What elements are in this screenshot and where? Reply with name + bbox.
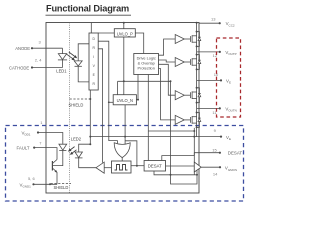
svg-text:14: 14: [213, 171, 218, 176]
red dashed box (gate drive outputs): [217, 38, 241, 117]
svg-text:VOUTP: VOUTP: [225, 50, 236, 56]
wire UVLO_N left down to gate: [109, 101, 113, 103]
svg-text:Drive Logic: Drive Logic: [137, 57, 156, 61]
pin 9 VE: [220, 136, 222, 138]
svg-text:FAULT: FAULT: [17, 146, 30, 151]
svg-text:3: 3: [39, 39, 42, 44]
wire Drive Logic bottom stub (to UVLO_N right): [137, 75, 139, 100]
wire CATHODE pin: [31, 66, 33, 68]
svg-text:VGND1: VGND1: [20, 182, 32, 188]
photodiode D2: [59, 144, 67, 150]
FAULT pin: [33, 147, 35, 149]
pulse glyph: [115, 165, 128, 171]
junction shield: [89, 98, 91, 100]
UVLO_N box: [113, 95, 136, 105]
junction shield2: [49, 183, 51, 185]
wire Drive Logic out 4: [159, 69, 176, 120]
VCC2/output rail: [196, 23, 198, 137]
title rule: [46, 14, 132, 16]
svg-text:& Overlap: & Overlap: [138, 62, 155, 66]
buffer B4: [175, 115, 184, 124]
wire Drive Logic out 2: [159, 60, 176, 62]
svg-text:1: 1: [40, 120, 43, 125]
MOSFET M2: [184, 55, 201, 70]
svg-text:ANODE: ANODE: [15, 46, 30, 51]
pin 12 VOUTP: [197, 51, 220, 53]
wire VCC stub to UVLO_P: [123, 23, 125, 29]
svg-text:Functional Diagram: Functional Diagram: [46, 4, 129, 14]
LED2: [79, 144, 91, 152]
wire UVLO_N bottom input B: [124, 105, 126, 144]
wire Drive Logic out 3: [159, 64, 176, 95]
svg-text:UVLO_P: UVLO_P: [117, 31, 133, 36]
svg-text:DESAT: DESAT: [148, 164, 162, 169]
wire UVLO_N top stub A: [117, 81, 119, 94]
package outline box: [46, 23, 199, 194]
VGND1 pin: [32, 183, 34, 185]
pin 15 DESAT: [194, 152, 220, 154]
pulse generator box: [112, 161, 132, 173]
svg-text:15: 15: [212, 147, 217, 152]
svg-text:VE: VE: [226, 135, 231, 141]
wire VE long (y136.6): [90, 136, 221, 138]
wire Drive Logic bottom stub to DESAT: [147, 75, 149, 161]
pin 14 VGMOS: [201, 166, 220, 168]
pin 13 VCC2: [199, 22, 220, 24]
wire gate input A: [117, 141, 119, 144]
svg-text:7: 7: [39, 141, 42, 146]
wire DRIVER out B: [98, 49, 103, 163]
svg-text:VDD1: VDD1: [22, 131, 31, 137]
wire DRIVER bottom to shield junction: [89, 90, 91, 144]
svg-text:VGMOS: VGMOS: [225, 166, 237, 172]
svg-text:CATHODE: CATHODE: [9, 65, 29, 70]
photodetector loop (top channel): [78, 44, 89, 61]
wire Drive Logic out 1: [159, 39, 176, 55]
wire DESAT pin vertical: [193, 153, 195, 156]
MOSFET M4: [184, 113, 201, 128]
DESAT box: [144, 161, 165, 172]
svg-text:2, 4: 2, 4: [35, 58, 42, 63]
DRIVER letters: [92, 37, 95, 86]
buffer B3: [175, 91, 184, 100]
wire vertical x170 down to DESAT loop: [170, 81, 172, 175]
bottom-left: VDD1 pin: [37, 131, 39, 133]
wire DRIVER out A: [98, 41, 118, 140]
junction VCC rail: [123, 22, 125, 24]
svg-text:VOUTN: VOUTN: [225, 106, 236, 112]
OR gate (points down): [114, 143, 130, 158]
wire inverter input: [104, 167, 111, 169]
wire gate output: [121, 158, 123, 161]
shield dashed line (bottom channel): [51, 183, 71, 185]
svg-text:VCC2: VCC2: [226, 21, 235, 27]
wire DESAT right to VGMOS buffer: [166, 165, 195, 167]
svg-text:SHIELD: SHIELD: [69, 102, 84, 107]
LED1: [62, 48, 64, 53]
wire UVLO_P right to Drive Logic: [135, 33, 143, 54]
transistor Q1 (FAULT): [51, 161, 53, 171]
svg-text:9: 9: [214, 128, 217, 133]
photodiode D1: [74, 61, 82, 66]
svg-text:LED1: LED1: [56, 69, 67, 74]
wire UVLO_N right to stub: [136, 99, 138, 101]
UVLO_P box: [114, 29, 135, 37]
rail junctions: [196, 22, 198, 129]
wire M4 source to DESAT feedback vertical: [193, 128, 195, 175]
buffer B2: [175, 58, 184, 67]
wire UVLO_P bottom to UVLO_N: [123, 37, 125, 95]
wire horizontal y81: [118, 80, 171, 82]
wire pulse out to DESAT: [131, 165, 144, 167]
MOSFET M1: [184, 32, 201, 47]
svg-text:UVLO_N: UVLO_N: [117, 98, 133, 103]
svg-text:I: I: [93, 55, 94, 59]
buffer B1: [175, 35, 184, 44]
svg-text:5, 6: 5, 6: [28, 176, 35, 181]
wire DESAT top stub2: [162, 156, 195, 161]
svg-text:Protection: Protection: [138, 67, 155, 71]
svg-text:DESAT: DESAT: [228, 151, 243, 156]
svg-text:LED2: LED2: [71, 136, 82, 141]
shield dashed line (top channel): [70, 98, 91, 100]
wire feedback U loop: [171, 167, 198, 184]
pin 10 VE: [197, 79, 221, 81]
driver VCC feed wire: [90, 23, 92, 34]
svg-text:VE: VE: [226, 78, 231, 84]
svg-text:13: 13: [211, 16, 216, 21]
wire DESAT bottom feedback: [154, 171, 197, 175]
LED1 light arrows: [67, 52, 76, 59]
VGMOS buffer: [194, 162, 201, 172]
pin 11 VOUTN: [197, 107, 220, 109]
blue dashed box (status feedback group): [6, 126, 244, 202]
Drive Logic box: [134, 54, 159, 75]
MOSFET M3: [184, 88, 201, 103]
wire UVLO_P left: [98, 32, 114, 34]
LED2 light arrows: [69, 147, 77, 155]
isolation barrier (dotted vertical): [69, 23, 71, 194]
svg-text:SHIELD: SHIELD: [54, 185, 69, 190]
wire ANODE pin: [31, 47, 33, 49]
DRIVER box: [89, 33, 98, 90]
inverter (LED2 driver, points left): [96, 162, 104, 173]
wire gate B branch to pulse output: [125, 141, 137, 166]
wire y131: [148, 130, 194, 132]
